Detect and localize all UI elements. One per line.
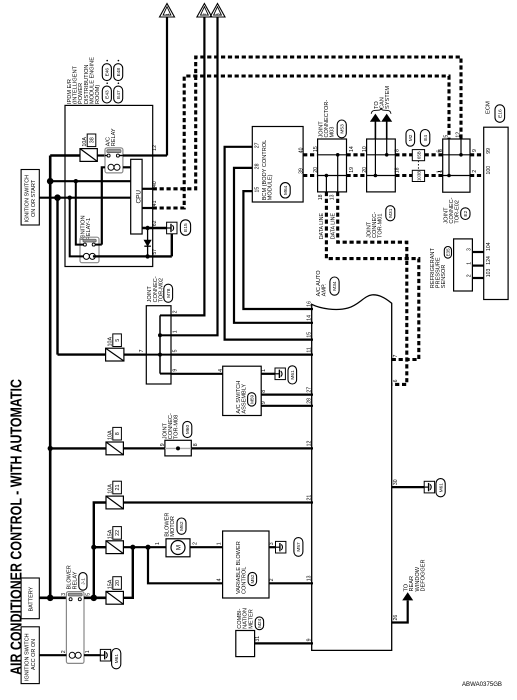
- svg-text:16: 16: [306, 301, 312, 307]
- dashed CAN line A from pin 40: [153, 57, 461, 189]
- ground M61 near AC switch: [275, 368, 285, 380]
- svg-text:E35: E35: [445, 248, 450, 256]
- svg-text:12: 12: [306, 441, 312, 447]
- svg-text:METER: METER: [248, 609, 254, 629]
- wire BCM 28 to amp 14: [234, 168, 313, 323]
- svg-text:104: 104: [486, 242, 492, 251]
- svg-text:2: 2: [173, 310, 179, 313]
- svg-text:1: 1: [173, 330, 179, 333]
- dashed CAN M53 to M31 upper: [347, 153, 367, 156]
- ground E15: [167, 222, 177, 234]
- CAN arrow 2: [382, 114, 392, 121]
- node relay1 coil feed: [68, 196, 72, 200]
- E2 oval: [461, 208, 470, 220]
- svg-text:TOR-E02: TOR-E02: [455, 200, 461, 224]
- M53 internal wires: [318, 154, 347, 156]
- inline connector 65B: [412, 150, 424, 161]
- svg-text:5: 5: [444, 135, 450, 138]
- fuse 22 15A: [106, 541, 123, 554]
- svg-text:M61: M61: [290, 370, 296, 380]
- svg-text:15: 15: [255, 187, 261, 193]
- wire amp30 to ground: [392, 486, 425, 488]
- svg-text:38: 38: [89, 137, 95, 143]
- svg-text:M34: M34: [332, 281, 338, 291]
- wire fuse38 to AC relay: [97, 154, 105, 156]
- svg-text:ACC OR ON: ACC OR ON: [31, 639, 37, 670]
- wire BCM 15 to amp 16: [243, 191, 313, 309]
- wire to CPU and AC relay coil: [50, 180, 131, 182]
- wire triangle2 to M78 pin 2: [171, 17, 204, 315]
- svg-text:10: 10: [362, 146, 368, 152]
- wire battery bus vertical: [49, 156, 52, 598]
- svg-text:E48: E48: [116, 68, 122, 77]
- triangle connector 3: [210, 4, 225, 18]
- wire ignition switch on-start: [39, 197, 130, 199]
- svg-text:9: 9: [261, 401, 267, 404]
- node relay1 contact feed: [74, 179, 78, 183]
- wire CPU pin 62 to ground: [142, 227, 167, 229]
- dashed CAN E2 to ECM upper: [470, 153, 484, 156]
- wire relay1 contact out: [95, 244, 102, 246]
- wire bus to fuse8: [50, 447, 106, 449]
- wire ignition bus to fuse5: [58, 353, 106, 355]
- svg-text:M2: M2: [408, 134, 414, 141]
- svg-text:AMP.: AMP.: [322, 283, 328, 296]
- svg-text:E46: E46: [105, 68, 111, 77]
- wire ignacc to relay coil: [39, 654, 66, 656]
- svg-text:22: 22: [115, 530, 121, 536]
- svg-text:3: 3: [467, 248, 473, 251]
- svg-text:5: 5: [86, 593, 92, 596]
- M60 oval: [183, 421, 192, 437]
- svg-text:40: 40: [152, 181, 158, 187]
- M78 internal bus: [159, 315, 161, 373]
- IPDM E/R box: [65, 105, 153, 266]
- data line dashed from M53 pin 18 to amp pin 7: [326, 192, 418, 360]
- dashed CAN E2 to ECM lower: [470, 174, 484, 177]
- M52 oval: [248, 572, 257, 585]
- ECM box: [484, 127, 508, 299]
- dashed CAN M31 to connector 103B: [395, 174, 412, 177]
- svg-text:DEFOGGER: DEFOGGER: [420, 559, 426, 591]
- svg-text:20: 20: [313, 167, 319, 173]
- svg-text:AIR CONDITIONER CONTROL - WITH: AIR CONDITIONER CONTROL - WITH AUTOMATIC: [9, 379, 26, 675]
- wire AC switch 9 to amp 28: [261, 405, 313, 407]
- svg-text:7: 7: [139, 349, 145, 352]
- svg-text:M31: M31: [388, 208, 394, 218]
- wire fuse20 up to fuse22 wire: [123, 547, 132, 598]
- svg-text:RELAY: RELAY: [111, 128, 117, 146]
- svg-text:4: 4: [218, 369, 224, 372]
- svg-text:1: 1: [217, 542, 223, 545]
- E35 oval: [444, 247, 451, 259]
- svg-text:DATA LINE: DATA LINE: [330, 213, 336, 240]
- svg-text:MOTOR: MOTOR: [170, 516, 176, 537]
- svg-text:ON OR START: ON OR START: [31, 179, 37, 217]
- wire fuse21 to amp 21: [123, 501, 313, 503]
- svg-text:1: 1: [438, 170, 444, 173]
- M64 oval: [280, 183, 290, 198]
- battery box: [21, 578, 39, 619]
- svg-text:18: 18: [318, 194, 324, 200]
- svg-text:2: 2: [269, 578, 275, 581]
- M24 oval: [255, 617, 263, 630]
- svg-text:BATTERY: BATTERY: [29, 586, 35, 611]
- connector E47 oval: [114, 86, 123, 103]
- svg-text:27: 27: [306, 387, 312, 393]
- svg-text:13: 13: [306, 575, 312, 581]
- svg-text:3: 3: [269, 542, 275, 545]
- wire relay1 coil out to pin 57: [93, 255, 148, 257]
- wire pin12 to triangle 1: [166, 17, 168, 156]
- svg-text:MODULE): MODULE): [268, 174, 274, 200]
- svg-text:1: 1: [261, 369, 267, 372]
- svg-text:28: 28: [255, 163, 261, 169]
- fuse 5 10A: [106, 348, 124, 361]
- connector E43 oval: [102, 86, 111, 103]
- svg-text:M64: M64: [283, 185, 289, 195]
- svg-text:2: 2: [467, 274, 473, 277]
- combination meter box: [236, 631, 255, 657]
- node diode bottom: [145, 254, 149, 258]
- node bus21-fuse22 junction: [91, 545, 96, 550]
- svg-text:40: 40: [299, 147, 305, 153]
- svg-text:14: 14: [306, 315, 312, 321]
- ignition relay-1: [80, 237, 99, 263]
- svg-text:99: 99: [486, 148, 492, 154]
- triangle connector 2: [197, 4, 212, 18]
- svg-text:E4: E4: [423, 135, 429, 141]
- svg-text:5: 5: [173, 349, 179, 352]
- node vbc4 junction: [145, 545, 150, 550]
- svg-text:E2: E2: [463, 210, 469, 216]
- dotted link between connectors: [417, 161, 419, 171]
- M53 oval: [337, 120, 346, 138]
- CAN arrow 1: [371, 114, 381, 121]
- wire triangle3 to M78 pin 1: [171, 17, 218, 335]
- svg-text:39: 39: [299, 168, 305, 174]
- svg-text:TOR-M01: TOR-M01: [378, 214, 384, 238]
- dashed CAN 65B to E2: [425, 153, 443, 156]
- blower motor: [166, 539, 190, 557]
- svg-text:M78: M78: [166, 288, 172, 298]
- A/C switch assembly box: [223, 366, 262, 415]
- wire motor to VBC pin 1: [190, 546, 223, 548]
- diode: [144, 240, 151, 246]
- svg-text:SENSOR: SENSOR: [441, 265, 447, 289]
- svg-text:SYSTEM: SYSTEM: [385, 86, 391, 109]
- svg-text:6: 6: [393, 379, 399, 382]
- wire fuse8 to M60: [123, 447, 164, 449]
- svg-text:14: 14: [349, 146, 355, 152]
- ground M61 right: [424, 481, 434, 493]
- svg-text:8: 8: [193, 443, 199, 446]
- connector E48 oval: [114, 64, 123, 81]
- svg-text:M53: M53: [339, 124, 345, 134]
- svg-text:7: 7: [393, 355, 399, 358]
- J-1 oval: [79, 573, 87, 591]
- M61 oval near AC switch: [288, 366, 297, 384]
- svg-text:TOR-M08: TOR-M08: [174, 415, 180, 439]
- svg-text:8: 8: [438, 149, 444, 152]
- CPU box: [131, 159, 142, 234]
- M78 oval: [164, 284, 173, 302]
- wire BCM 27 to amp 15: [225, 147, 313, 340]
- svg-text:2: 2: [61, 650, 67, 653]
- wire M78 pin9 to AC switch pin4: [171, 373, 223, 375]
- svg-text:15: 15: [313, 146, 319, 152]
- svg-text:103B: 103B: [416, 171, 421, 181]
- M61 oval right: [436, 479, 445, 497]
- svg-text:27: 27: [255, 142, 261, 148]
- wires M31 to CAN system arrows: [386, 122, 388, 140]
- svg-text:M: M: [175, 545, 182, 550]
- svg-text:15: 15: [306, 332, 312, 338]
- M59 oval: [248, 393, 256, 406]
- svg-text:21: 21: [306, 495, 312, 501]
- svg-text:M61: M61: [114, 654, 120, 664]
- svg-text:12: 12: [456, 132, 462, 138]
- joint connector M01 box: [367, 139, 396, 192]
- dashed CAN BCM to M53 upper: [303, 153, 318, 156]
- joint connector E02 box: [443, 139, 470, 192]
- dashed CAN line B from pin 41: [153, 76, 449, 208]
- M31 oval: [386, 206, 395, 221]
- M57 oval: [294, 538, 303, 557]
- A/C relay: [105, 148, 123, 173]
- wire to fuse22: [94, 546, 106, 548]
- wire AC switch 8 to amp 27: [261, 394, 313, 396]
- wire fuse22 to blower motor: [123, 546, 166, 548]
- E16 oval: [495, 105, 505, 123]
- wire relay1 contact feed: [76, 181, 84, 244]
- svg-text:E15: E15: [183, 223, 189, 232]
- svg-text:1: 1: [467, 262, 473, 265]
- svg-text:2: 2: [193, 542, 199, 545]
- wire CPU pin 40: [142, 188, 153, 190]
- M62 oval: [177, 518, 186, 534]
- svg-text:9: 9: [160, 443, 166, 446]
- svg-text:DATA LINE: DATA LINE: [319, 213, 325, 240]
- wire ignition bus vertical: [56, 198, 58, 355]
- svg-text:124: 124: [486, 256, 492, 265]
- svg-text:8: 8: [261, 390, 267, 393]
- wire CPU pin 41: [142, 207, 153, 209]
- M31 internal wires: [367, 154, 396, 156]
- wire AC switch pin1 to ground: [261, 373, 275, 375]
- A/C auto amp box: [312, 295, 392, 651]
- svg-text:41: 41: [152, 200, 158, 206]
- svg-text:30: 30: [393, 479, 399, 485]
- node battery-cpu junction: [47, 178, 54, 185]
- M61 oval bottom left: [112, 649, 121, 669]
- wire VBC pin2 to amp 13: [269, 582, 313, 584]
- wire AC relay contact to pin 12: [123, 154, 167, 156]
- wire relay1 coil feed: [70, 198, 84, 257]
- svg-text:ECM: ECM: [486, 101, 492, 114]
- node fuse20 junction: [130, 545, 135, 550]
- variable blower control box: [223, 531, 269, 598]
- svg-text:9: 9: [306, 638, 312, 641]
- svg-text:1: 1: [155, 542, 161, 545]
- dashed CAN M53 to M31 lower: [347, 174, 367, 177]
- node battery junction: [47, 595, 54, 602]
- triangle connector 1: [160, 4, 175, 18]
- svg-text:CPU: CPU: [135, 190, 142, 204]
- svg-text:65B: 65B: [416, 151, 421, 159]
- svg-text:3: 3: [61, 593, 67, 596]
- svg-text:2: 2: [472, 170, 478, 173]
- svg-text:M57: M57: [296, 542, 302, 552]
- svg-text:M59: M59: [249, 394, 254, 403]
- svg-text:M24: M24: [257, 618, 262, 627]
- wire to VBC pin 4: [148, 547, 223, 583]
- svg-text:M60: M60: [185, 425, 191, 435]
- blower relay: [66, 592, 84, 664]
- wire amp26 to defogger: [392, 601, 408, 623]
- svg-text:8: 8: [115, 432, 121, 435]
- ground M57: [276, 541, 286, 553]
- dashed CAN M31 to connector 65B: [395, 153, 412, 156]
- wire VBC pin3 to ground M57: [269, 546, 276, 548]
- svg-text:5: 5: [115, 339, 121, 342]
- svg-text:M62: M62: [179, 521, 185, 531]
- wires sensor to ECM: [472, 251, 483, 253]
- joint connector M02 box: [146, 306, 171, 384]
- svg-text:9: 9: [472, 149, 478, 152]
- dashed CAN BCM to M53 lower: [303, 174, 318, 177]
- TO CAN SYSTEM label: [371, 108, 391, 114]
- svg-text:ASSEMBLY: ASSEMBLY: [242, 384, 248, 414]
- wire battery to relay: [39, 596, 66, 599]
- node relay5 junction: [91, 595, 98, 602]
- BCM body control module box: [252, 127, 303, 203]
- connector E46 oval: [102, 64, 111, 81]
- E15 oval: [180, 220, 190, 236]
- svg-text:RELAY: RELAY: [72, 571, 78, 589]
- defogger arrow: [403, 593, 413, 600]
- svg-text:103: 103: [486, 269, 492, 278]
- M34 oval: [330, 277, 339, 295]
- wire fuse38 feed: [50, 154, 80, 156]
- ignition switch ACC OR ON box: [21, 627, 39, 684]
- svg-text:11: 11: [306, 347, 312, 352]
- svg-text:CONTROL: CONTROL: [241, 567, 247, 594]
- joint connector M08 box: [165, 440, 191, 456]
- svg-text:M03: M03: [330, 127, 336, 138]
- dashed CAN 103B to E2: [425, 174, 443, 177]
- svg-text:13: 13: [330, 194, 336, 200]
- wire M78 pin5 to amp 11: [171, 354, 313, 356]
- wire AC relay coil right to CPU: [123, 166, 131, 168]
- svg-text:IGNITION SWITCH: IGNITION SWITCH: [24, 633, 30, 681]
- svg-text:4: 4: [217, 578, 223, 581]
- svg-text:62: 62: [152, 220, 158, 226]
- E4 oval: [420, 130, 429, 147]
- svg-text:100: 100: [486, 166, 492, 175]
- ignition switch ON OR START box: [21, 170, 39, 226]
- svg-text:8: 8: [395, 149, 401, 152]
- svg-text:26: 26: [393, 615, 399, 621]
- svg-text:28: 28: [306, 398, 312, 404]
- svg-text:E16: E16: [498, 109, 504, 118]
- fuse 38 10A: [80, 149, 97, 162]
- svg-text:57: 57: [152, 249, 158, 255]
- svg-text:20: 20: [115, 580, 121, 586]
- wire relay coil to ground: [84, 654, 100, 656]
- wire AC relay coil left: [102, 167, 105, 244]
- svg-text:1: 1: [85, 650, 91, 653]
- svg-text:19: 19: [349, 167, 355, 173]
- node diode top: [145, 226, 149, 230]
- ground M61 bottom left: [100, 649, 110, 661]
- data line dashed from M53 pin 13 to amp pin 6: [338, 192, 407, 385]
- svg-text:E43: E43: [105, 90, 111, 99]
- wire relay5 to fuse20: [84, 596, 106, 599]
- svg-text:9: 9: [173, 369, 179, 372]
- wire meter to amp 9: [255, 642, 313, 644]
- node bus to fuse8: [48, 446, 53, 451]
- M2 oval: [406, 130, 415, 147]
- wire bus21 corner: [94, 503, 106, 598]
- fuse 20 15A: [106, 591, 123, 604]
- node ignition bus junction: [54, 194, 61, 201]
- svg-text:20: 20: [362, 167, 368, 173]
- svg-text:ROOM): ROOM): [95, 85, 101, 104]
- svg-text:IGNITION SWITCH: IGNITION SWITCH: [24, 175, 30, 223]
- svg-text:12: 12: [152, 145, 158, 151]
- svg-text:31: 31: [255, 636, 261, 642]
- refrigerant pressure sensor box: [454, 239, 473, 291]
- fuse 8 10A: [106, 442, 123, 455]
- fuse 21 10A: [106, 496, 123, 509]
- E2 internal wires: [443, 154, 470, 156]
- svg-text:J-1: J-1: [81, 578, 87, 585]
- svg-text:E47: E47: [116, 90, 122, 99]
- wire ground to pin57 wire: [171, 234, 173, 257]
- wire fuse5 to M78 pin 7: [124, 354, 146, 356]
- svg-text:ABWA0375GB: ABWA0375GB: [462, 681, 502, 688]
- svg-text:M61: M61: [438, 483, 444, 493]
- inline connector 103B: [412, 170, 424, 181]
- joint connector M03 box: [318, 139, 347, 192]
- svg-text:18: 18: [395, 167, 401, 173]
- svg-text:M52: M52: [250, 574, 255, 583]
- svg-text:21: 21: [115, 485, 121, 491]
- wire M60 to amp 12: [191, 447, 313, 449]
